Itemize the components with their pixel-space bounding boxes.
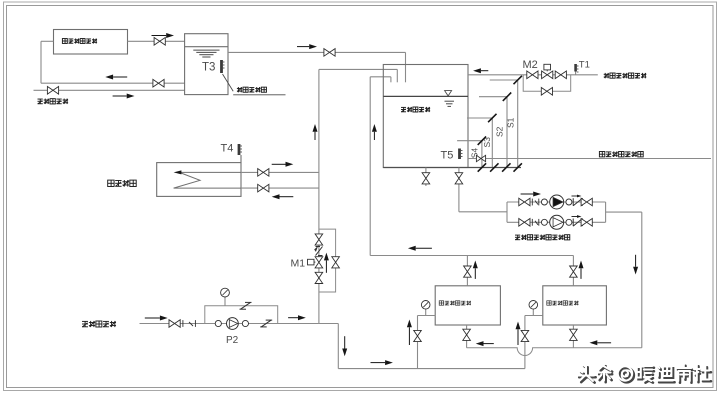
svg-text:T3: T3 — [202, 62, 215, 74]
valve on cold water supply — [47, 87, 58, 95]
valve on heater bottom pipe — [258, 184, 269, 192]
top branch discharge flange — [566, 199, 572, 205]
flow arrow up unit1 feed — [407, 320, 412, 346]
wire collector return line — [41, 82, 185, 84]
check valve after P2 — [260, 320, 272, 327]
bottom branch outlet valve — [581, 219, 592, 227]
flow arrow left on return line — [105, 75, 127, 80]
wire T4 stub above heater — [240, 155, 242, 163]
unit2 top outlet pipe — [572, 256, 574, 286]
unit1 gauge assembly — [418, 301, 436, 316]
heating element zigzag — [174, 170, 241, 188]
pump P2 — [227, 318, 239, 330]
valve on cold inlet — [169, 320, 180, 328]
valve right of M2 — [555, 71, 566, 79]
solar collector box 太阳能集热管 — [54, 30, 128, 55]
flow arrow right after P2 — [288, 315, 306, 320]
thermometer symbol T4 — [238, 144, 242, 155]
wire heater top pipe to riser — [241, 171, 319, 173]
pump P2 discharge flange — [242, 320, 248, 326]
unit2 bottom return pipe — [572, 325, 574, 348]
valve on unit2 top outlet — [570, 266, 578, 277]
svg-text:T5: T5 — [441, 150, 454, 162]
label 冷水供水管 (bottom) — [82, 321, 116, 327]
valve left of M2 — [527, 71, 538, 79]
wire hot water supply line 生活热水供水管 — [468, 158, 711, 160]
label M2 — [523, 59, 538, 71]
P2 bypass loop — [205, 306, 278, 324]
flow arrow up unit2 feed — [516, 322, 521, 346]
label S4 — [469, 148, 479, 159]
top branch check valve — [573, 198, 582, 206]
flow arrow right on cold water supply — [113, 94, 135, 99]
wire hot water return line through M2 — [468, 74, 598, 76]
wire tank outlet to circulation pumps — [459, 168, 507, 212]
unit2 gauge assembly — [525, 301, 543, 316]
label S2 — [495, 126, 505, 137]
M2 bypass loop — [523, 75, 571, 92]
bottom branch suction flange — [541, 219, 547, 225]
circulation pump 1 (running) — [550, 195, 564, 209]
pressure gauge on bypass — [221, 288, 230, 306]
sensor S3 — [467, 114, 497, 168]
wire heat pump outlet header — [370, 255, 573, 257]
top branch flex joint — [532, 199, 539, 206]
label 生活热水一次循环泵 — [515, 235, 570, 240]
valve above M1 — [315, 234, 323, 245]
sensor S2 — [479, 93, 511, 168]
wire heat-pump supply riser to tank — [370, 77, 391, 256]
label T5 — [441, 150, 454, 162]
top branch outlet valve — [581, 198, 592, 206]
label 电加热器 — [108, 180, 137, 187]
flow arrow left into tank — [473, 68, 488, 73]
flow arrow left heater bottom — [272, 194, 294, 199]
thermometer symbol T5 — [458, 149, 462, 160]
valve below M1 — [315, 272, 323, 283]
wire collector left riser — [41, 41, 54, 83]
sensor S1 — [490, 76, 522, 168]
flow arrow small above bottom check — [572, 215, 582, 218]
heat pump unit 2 box 热泵热水机组 — [543, 286, 607, 325]
label S1 — [506, 117, 516, 128]
electric heater box 电加热器 — [157, 163, 241, 197]
check valve on bypass — [240, 302, 252, 309]
flow arrow up unit2 outlet — [579, 261, 584, 279]
svg-text:P2: P2 — [226, 335, 239, 346]
flow arrow left on outlet header — [408, 246, 432, 251]
flow arrow right cold feed bottom — [371, 360, 393, 365]
flow arrow up unit1 outlet — [473, 261, 478, 279]
svg-text:T1: T1 — [579, 60, 590, 71]
flow arrow right on T3 outlet — [297, 44, 317, 49]
flex joint on cold inlet — [183, 320, 196, 327]
flow arrow small above check — [572, 195, 582, 198]
unit1 bottom return pipe — [466, 325, 468, 348]
valve on unit1 bottom return — [463, 329, 471, 340]
domestic hot water tank 生活热水箱 — [383, 65, 468, 168]
flow arrow up on riser top — [313, 124, 318, 140]
label T4 — [221, 143, 234, 155]
solar water tank T3 — [185, 34, 228, 95]
svg-text:M2: M2 — [523, 59, 538, 71]
unit2 feed riser — [524, 316, 526, 369]
valve on unit1 feed riser — [414, 330, 422, 341]
pump P2 suction flange — [215, 320, 221, 326]
bottom branch discharge flange — [566, 219, 572, 225]
valve on supply line — [476, 155, 485, 161]
valve on unit1 top outlet — [464, 266, 472, 277]
wire cold water supply to T3 tank — [34, 89, 185, 91]
bottom branch inlet valve — [519, 219, 530, 227]
M1 bypass loop — [319, 229, 336, 292]
flow arrow right above top branch — [521, 192, 541, 197]
flow arrow right cold inlet — [145, 316, 168, 321]
flow arrow up M1 bypass — [324, 253, 329, 273]
circulation pump 2 (standby) — [550, 215, 564, 229]
valve on heater top pipe — [258, 169, 269, 177]
tank bottom extension with sensor ticks — [383, 163, 522, 171]
flow arrow left toward unit2 — [590, 340, 612, 345]
sensor S4 — [457, 137, 486, 168]
label S3 — [482, 137, 492, 148]
tank drain valve 1 — [422, 168, 430, 187]
label T1 — [579, 60, 590, 71]
label P2 — [226, 335, 239, 346]
bottom branch check valve — [573, 219, 582, 227]
valve on unit2 bottom return — [570, 329, 578, 340]
flow arrow left toward unit1 — [476, 341, 494, 346]
label M1 — [291, 258, 306, 270]
valve on collector return — [153, 79, 164, 87]
flow arrow right heater top — [272, 162, 294, 167]
valve on T3 outlet — [324, 49, 335, 57]
wire heater bottom pipe to riser — [241, 187, 319, 189]
thermometer symbol in T3 — [220, 60, 224, 73]
wire circulation return line with crossover hoop — [467, 348, 642, 356]
valve on unit2 feed riser — [521, 330, 529, 341]
flow arrow up on hp riser — [372, 124, 377, 140]
motorized valve M2 — [542, 64, 553, 78]
wire pump discharge to right drop — [606, 212, 642, 348]
top branch inlet valve — [519, 198, 530, 206]
wire T3 outlet to hot water tank — [228, 52, 406, 82]
unit1 feed riser — [417, 316, 419, 369]
wire collector outlet to tank T3 — [128, 40, 185, 42]
valve on collector outlet — [154, 38, 165, 46]
bottom branch flex joint — [532, 219, 539, 226]
valve on M1 bypass — [332, 257, 340, 268]
flow arrow right above collector outlet — [152, 33, 175, 38]
unit1 top outlet pipe — [466, 256, 468, 286]
label 生活热水箱 — [401, 107, 430, 112]
wire cold water inlet line — [140, 323, 319, 325]
label T3 — [202, 62, 215, 74]
heat pump unit 1 box 热泵热水机组 — [435, 286, 500, 325]
flow arrow down right drop — [633, 255, 638, 275]
valve on tank outlet — [455, 173, 463, 184]
wire main riser (cold junction up to hot tank inlet) — [319, 69, 397, 323]
pump group manifolds — [507, 202, 606, 222]
leader line and label 太阳能水箱 — [223, 74, 286, 95]
svg-text:M1: M1 — [291, 258, 306, 270]
label 生活热水回水管 — [604, 73, 647, 78]
label 冷水供水管 (top left) — [38, 99, 69, 105]
svg-text:S2: S2 — [495, 126, 505, 137]
top branch suction flange — [541, 199, 547, 205]
watermark 头条@暖通南社 — [578, 364, 712, 383]
motorized valve M1 — [308, 257, 323, 268]
wire cold feed bottom run — [319, 324, 525, 369]
svg-text:T4: T4 — [221, 143, 234, 155]
flow arrow down cold feed drop — [342, 336, 347, 356]
valve on M2 bypass — [541, 88, 552, 96]
label 生活热水供水管 — [599, 151, 643, 157]
check valve above M1 — [314, 246, 322, 256]
thermometer T1 — [574, 64, 578, 75]
